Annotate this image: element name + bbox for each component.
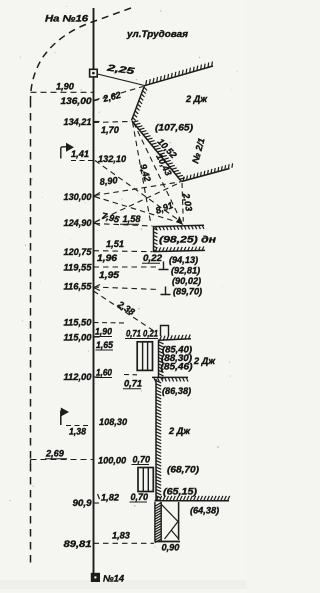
wire dashed vertical measure 2,03 bbox=[182, 183, 183, 222]
svg-text:(65,15): (65,15) bbox=[163, 487, 197, 497]
svg-text:1,41: 1,41 bbox=[71, 149, 89, 159]
tick mark 1,82 bbox=[98, 494, 100, 499]
house west wall lower bbox=[155, 379, 157, 501]
benchmark flag symbol 1,41 bbox=[61, 147, 67, 159]
wire dashed measure 1,58 to block corner bbox=[95, 224, 153, 227]
svg-text:112,00: 112,00 bbox=[64, 372, 93, 382]
svg-text:0,71: 0,71 bbox=[124, 379, 142, 389]
svg-text:89,81: 89,81 bbox=[64, 539, 92, 549]
svg-text:0,90: 0,90 bbox=[162, 543, 181, 553]
building 2Dzh north wall bbox=[144, 66, 213, 86]
hatch house west wall lower bbox=[156, 381, 161, 502]
paper background bbox=[0, 0, 246, 593]
svg-text:(64,38): (64,38) bbox=[190, 506, 219, 516]
underline 1,60 bbox=[96, 377, 113, 379]
wire dashed measure 2,62 to building corner bbox=[94, 87, 144, 102]
hatch block-A west wall bbox=[154, 228, 158, 251]
hatch top-building north wall bbox=[146, 62, 213, 86]
wire dashed steep measure 10,43 from corner bbox=[134, 123, 183, 224]
building wall along street to east bbox=[182, 169, 230, 182]
underline 0,70 bottom bbox=[130, 501, 148, 503]
inlet symbol staple bbox=[161, 326, 169, 337]
svg-text:(107,65): (107,65) bbox=[155, 123, 193, 133]
svg-text:108,30: 108,30 bbox=[99, 417, 128, 427]
wire dashed measure 7,95 bbox=[95, 197, 183, 224]
svg-text:1,60: 1,60 bbox=[96, 368, 113, 378]
wire main survey line bbox=[93, 8, 95, 574]
wire dashed measure 8,90 bbox=[95, 182, 181, 196]
hatch top-building southwest wall bbox=[133, 121, 185, 179]
building 2Dzh west wall bbox=[132, 86, 145, 121]
svg-text:90,9: 90,9 bbox=[73, 498, 93, 508]
svg-text:1,90: 1,90 bbox=[95, 327, 113, 337]
underline 1,65 bbox=[96, 349, 114, 351]
wire dashed leader 115,50 bbox=[94, 322, 127, 325]
underline 0,71 0,21 bbox=[125, 338, 158, 340]
svg-text:1,90: 1,90 bbox=[56, 82, 75, 92]
tick station 112,00 bbox=[94, 376, 100, 378]
arrow station 130,00 bbox=[94, 193, 100, 199]
outlet symbol T2 bbox=[161, 287, 171, 295]
tick boundary junction bbox=[30, 460, 32, 466]
svg-text:1,83: 1,83 bbox=[112, 531, 130, 541]
svg-text:(94,13): (94,13) bbox=[169, 255, 198, 265]
svg-text:1,58: 1,58 bbox=[123, 214, 142, 224]
hatch shed west wall bbox=[155, 503, 162, 543]
wire measurement 2,25 line from marker to building corner bbox=[97, 74, 144, 86]
svg-text:0,70: 0,70 bbox=[133, 455, 151, 465]
svg-text:(86,38): (86,38) bbox=[162, 386, 191, 396]
wire dashed leader 2,69 row bbox=[31, 459, 94, 461]
wire dashed measure from 132,10 down to block arrow bbox=[95, 161, 182, 223]
svg-text:(89,70): (89,70) bbox=[173, 287, 202, 297]
svg-text:(92,81): (92,81) bbox=[171, 266, 200, 276]
svg-text:(68,70): (68,70) bbox=[167, 465, 199, 475]
svg-text:2 Дж: 2 Дж bbox=[193, 356, 216, 366]
svg-text:(90,02): (90,02) bbox=[172, 276, 201, 286]
underline 1,58 bbox=[120, 223, 139, 225]
svg-text:134,21: 134,21 bbox=[64, 117, 92, 127]
svg-text:124,90: 124,90 bbox=[64, 218, 93, 228]
wire dashed leader 116,55 row bbox=[94, 287, 160, 290]
arrow station 116,55 bbox=[94, 285, 100, 291]
structure block A walls bbox=[154, 225, 206, 252]
svg-text:119,55: 119,55 bbox=[64, 263, 93, 273]
node survey point No14 (bottom square marker) bbox=[91, 573, 99, 581]
hatch block-A north wall bbox=[155, 225, 204, 230]
svg-text:132,10: 132,10 bbox=[98, 154, 127, 164]
svg-text:2 Дж: 2 Дж bbox=[185, 94, 208, 104]
wire dashed tail 1,41 to line bbox=[71, 160, 94, 162]
svg-text:136,00: 136,00 bbox=[61, 96, 93, 106]
house north wall line bbox=[158, 339, 191, 340]
underline 2,69 bbox=[45, 458, 67, 460]
wire dashed leader 89,81 row bbox=[94, 542, 155, 544]
svg-text:100,00: 100,00 bbox=[98, 456, 127, 466]
wire dashed diagonal 2,38 bbox=[94, 291, 158, 333]
underline 0,70 top bbox=[132, 464, 150, 466]
svg-text:1,96: 1,96 bbox=[97, 253, 118, 263]
hatch house west wall upper bbox=[159, 342, 164, 380]
svg-text:1,95: 1,95 bbox=[99, 270, 120, 280]
tick station 115,00 bbox=[94, 336, 100, 338]
underline 1,90 bbox=[95, 336, 113, 338]
building 2Dzh southwest diagonal wall bbox=[132, 121, 182, 182]
wire dashes 112 to porch bbox=[124, 374, 137, 376]
wire dashed steep measure 9,42 from corner bbox=[133, 122, 152, 225]
benchmark flag symbol 1,38 bbox=[60, 411, 62, 426]
svg-text:0,70: 0,70 bbox=[131, 492, 149, 502]
tick station 90,9 bbox=[94, 502, 100, 504]
svg-text:120,75: 120,75 bbox=[64, 247, 93, 257]
svg-text:8,90: 8,90 bbox=[99, 175, 119, 187]
svg-text:ул.Трудовая: ул.Трудовая bbox=[126, 29, 189, 39]
svg-text:1,38: 1,38 bbox=[69, 427, 87, 437]
tick station 136,00 bbox=[94, 99, 100, 101]
svg-text:2,69: 2,69 bbox=[45, 449, 65, 459]
svg-text:116,55: 116,55 bbox=[64, 282, 93, 292]
hatch top-building west wall bbox=[133, 87, 147, 120]
arrowhead at block A top bbox=[176, 218, 183, 226]
svg-text:115,00: 115,00 bbox=[64, 333, 93, 343]
wire dashed leader 1,90 row bbox=[31, 91, 94, 93]
svg-text:115,50: 115,50 bbox=[64, 318, 93, 328]
hatch house north wall bbox=[160, 335, 190, 340]
svg-text:1,51: 1,51 bbox=[106, 239, 124, 249]
shed diagonal braces bbox=[162, 505, 179, 540]
hatch house south wall bbox=[156, 496, 230, 501]
wire dashed measure 8,91 bbox=[95, 182, 181, 222]
svg-text:0,22: 0,22 bbox=[143, 253, 163, 263]
svg-text:Нa №16: Нa №16 bbox=[45, 14, 89, 24]
underline 0,22 bbox=[142, 262, 160, 264]
wire dashed parcel boundary vertical bbox=[30, 100, 32, 568]
svg-text:(98,25) дн: (98,25) дн bbox=[159, 235, 217, 245]
hatch house step wall bbox=[154, 378, 188, 382]
hatch south wall toward street bbox=[183, 163, 232, 181]
svg-text:1,82: 1,82 bbox=[101, 493, 120, 503]
house south wall bbox=[155, 500, 230, 502]
wire dashed parcel boundary curve top bbox=[31, 8, 132, 100]
outlet symbol T1 bbox=[159, 262, 169, 270]
arrow station 124,90 bbox=[94, 220, 100, 226]
svg-text:130,00: 130,00 bbox=[64, 192, 93, 202]
porch 1 rectangle bbox=[137, 342, 152, 371]
svg-text:1,65: 1,65 bbox=[96, 340, 114, 350]
node survey point to No16 (top square marker) bbox=[90, 69, 98, 77]
svg-text:2 Дж: 2 Дж bbox=[168, 426, 191, 436]
wire dashed measure 1,70 to west corner bbox=[94, 122, 131, 123]
svg-text:№14: №14 bbox=[103, 574, 124, 584]
svg-text:(85,46): (85,46) bbox=[161, 362, 193, 372]
house step wall bbox=[152, 376, 188, 378]
svg-text:1,70: 1,70 bbox=[101, 125, 120, 135]
wire dashed tail 1,38 bbox=[66, 425, 91, 427]
underline 0,71b bbox=[123, 388, 141, 390]
hatch block-A south wall bbox=[155, 247, 204, 252]
house west wall upper bbox=[158, 340, 160, 377]
tick station 134,21 bbox=[94, 121, 100, 123]
svg-text:0,71 0,21: 0,71 0,21 bbox=[126, 329, 158, 339]
porch 2 rectangle bbox=[138, 468, 153, 492]
wire dashed leader 119,55 row bbox=[94, 266, 158, 268]
shed west wall double line bbox=[155, 502, 161, 542]
wire dashed leader 1,51 bbox=[94, 251, 153, 252]
shed south wall bbox=[155, 541, 181, 543]
shed east wall bbox=[178, 502, 180, 540]
